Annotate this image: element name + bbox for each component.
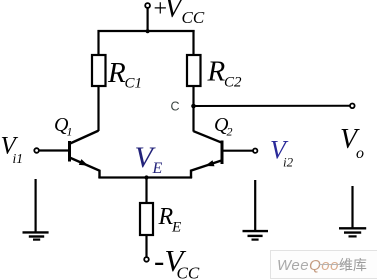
junction dot top — [146, 29, 150, 33]
wire: RC2 top — [192, 30, 194, 55]
resistor RC2 — [187, 55, 201, 86]
output terminal — [350, 104, 355, 109]
svg-text:i1: i1 — [13, 151, 24, 166]
wire: +VCC stub — [147, 8, 149, 32]
ground left bars — [23, 232, 49, 239]
ground left stem — [34, 179, 36, 232]
svg-text:R: R — [107, 57, 126, 89]
Q1 emitter arrow — [79, 159, 89, 166]
label Vi1 — [1, 133, 24, 167]
ground right bars — [339, 228, 366, 236]
wire: RC1 top — [97, 30, 99, 55]
Vi1 input terminal — [34, 148, 39, 153]
wire: VE to RE — [145, 178, 147, 205]
wire: RC1 bottom to Q1 collector corner — [97, 86, 99, 131]
label -VCC — [154, 243, 200, 280]
wire: top rail — [98, 30, 195, 32]
label Vi2 — [270, 136, 294, 170]
junction dot C — [191, 104, 196, 109]
svg-text:C2: C2 — [224, 75, 242, 91]
Vi2 input terminal — [253, 149, 257, 153]
wire: Q1 base — [39, 149, 69, 151]
wire: node C to output — [194, 105, 351, 107]
wire: VE rail — [98, 176, 192, 178]
label Vo — [340, 124, 364, 162]
label Q1 — [54, 114, 73, 139]
wire: Q1 collector diagonal — [70, 131, 99, 144]
wire: Q1 emitter — [70, 158, 100, 178]
label VE — [135, 141, 163, 177]
ground middle stem — [254, 180, 256, 230]
svg-text:1: 1 — [67, 125, 73, 139]
+VCC terminal — [145, 3, 150, 8]
transistor Q1 base bar — [68, 141, 71, 162]
resistor RE — [140, 203, 153, 235]
wire: Q2 emitter — [191, 160, 222, 178]
svg-text:C1: C1 — [125, 76, 143, 92]
watermark WeeQoo box — [270, 250, 377, 279]
resistor RC1 — [92, 55, 106, 86]
svg-text:E: E — [152, 160, 163, 177]
label Q2 — [214, 114, 233, 139]
label +VCC — [154, 0, 205, 27]
label RC2 — [207, 56, 243, 91]
wire: Q2 collector diagonal — [194, 131, 222, 143]
wire: RE to -VCC — [145, 235, 147, 257]
svg-text:o: o — [356, 145, 364, 162]
svg-text:i2: i2 — [283, 155, 294, 170]
svg-text:R: R — [207, 56, 226, 88]
svg-text:E: E — [171, 220, 181, 236]
svg-text:CC: CC — [182, 8, 205, 27]
svg-text:CC: CC — [177, 264, 200, 280]
svg-text:C: C — [171, 100, 180, 114]
svg-text:2: 2 — [227, 125, 233, 139]
-VCC terminal — [144, 257, 149, 262]
label RC1 — [107, 57, 142, 92]
wire: Q2 base — [223, 150, 254, 152]
label RE — [158, 204, 182, 236]
wire: RC2 bottom to Q2 collector corner — [192, 86, 194, 132]
transistor Q2 base bar — [221, 141, 224, 165]
ground right stem — [351, 186, 353, 228]
ground middle bars — [243, 231, 269, 240]
Q2 emitter arrow — [205, 160, 215, 166]
junction dot VE — [144, 175, 148, 179]
